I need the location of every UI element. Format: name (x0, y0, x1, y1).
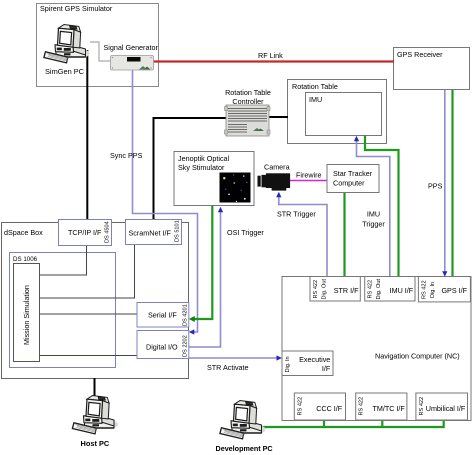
svg-text:DS 4201: DS 4201 (183, 304, 189, 326)
svg-text:Sync PPS: Sync PPS (110, 151, 143, 160)
svg-text:Spirent GPS Simulator: Spirent GPS Simulator (40, 4, 113, 13)
svg-text:IMU: IMU (367, 210, 380, 219)
svg-text:RS 422: RS 422 (313, 280, 319, 299)
svg-text:STR Trigger: STR Trigger (277, 210, 316, 219)
svg-text:Development PC: Development PC (216, 444, 273, 453)
svg-text:Dig. In: Dig. In (430, 282, 436, 298)
svg-text:STR Activate: STR Activate (207, 363, 249, 372)
svg-text:STR I/F: STR I/F (334, 286, 359, 295)
svg-text:Star Tracker: Star Tracker (333, 169, 373, 178)
svg-text:Rotation Table: Rotation Table (292, 82, 338, 91)
svg-text:Navigation Computer (NC): Navigation Computer (NC) (375, 352, 460, 361)
svg-text:ScramNet I/F: ScramNet I/F (129, 229, 172, 238)
svg-text:Computer: Computer (333, 179, 365, 188)
svg-text:RF Link: RF Link (258, 51, 283, 60)
svg-text:OSI Trigger: OSI Trigger (227, 228, 264, 237)
svg-text:PPS: PPS (428, 182, 443, 191)
svg-text:RS 422: RS 422 (419, 397, 425, 416)
svg-text:Dig. Out: Dig. Out (376, 279, 382, 300)
svg-text:RS 422: RS 422 (359, 397, 365, 416)
svg-text:CCC I/F: CCC I/F (316, 404, 343, 413)
svg-text:DS 5101: DS 5101 (175, 220, 181, 242)
svg-text:GPS I/F: GPS I/F (441, 286, 467, 295)
svg-text:Dig. In: Dig. In (285, 356, 291, 372)
svg-text:Sky Stimulator: Sky Stimulator (178, 163, 225, 172)
svg-text:TCP/IP I/F: TCP/IP I/F (68, 228, 102, 237)
svg-text:Digital I/O: Digital I/O (146, 343, 178, 352)
svg-text:SimGen PC: SimGen PC (45, 67, 85, 76)
svg-text:Executive: Executive (299, 355, 330, 364)
svg-text:TM/TC I/F: TM/TC I/F (372, 404, 405, 413)
svg-text:Mission Simulation: Mission Simulation (22, 285, 31, 345)
svg-text:DS 1006: DS 1006 (13, 256, 38, 263)
svg-text:Jenoptik Optical: Jenoptik Optical (178, 154, 230, 163)
svg-text:DS 2202: DS 2202 (183, 335, 189, 357)
svg-text:RS 422: RS 422 (421, 280, 427, 299)
svg-text:Signal Generator: Signal Generator (104, 43, 159, 52)
svg-text:DS 4504: DS 4504 (105, 221, 111, 243)
svg-text:GPS Receiver: GPS Receiver (397, 50, 443, 59)
svg-text:IMU I/F: IMU I/F (390, 286, 414, 295)
svg-text:Firewire: Firewire (296, 171, 322, 180)
svg-text:Umbilical I/F: Umbilical I/F (426, 404, 466, 413)
svg-text:Dig. Out: Dig. Out (322, 279, 328, 300)
svg-text:RS 422: RS 422 (297, 397, 303, 416)
svg-text:dSpace Box: dSpace Box (4, 228, 43, 237)
svg-text:I/F: I/F (322, 364, 331, 373)
svg-text:RS 422: RS 422 (368, 280, 374, 299)
svg-text:Serial I/F: Serial I/F (148, 311, 177, 320)
svg-text:Camera: Camera (264, 163, 290, 172)
svg-text:IMU: IMU (309, 95, 322, 104)
svg-text:Trigger: Trigger (362, 220, 385, 229)
svg-text:Rotation Table: Rotation Table (225, 88, 271, 97)
svg-text:Host PC: Host PC (81, 439, 110, 448)
